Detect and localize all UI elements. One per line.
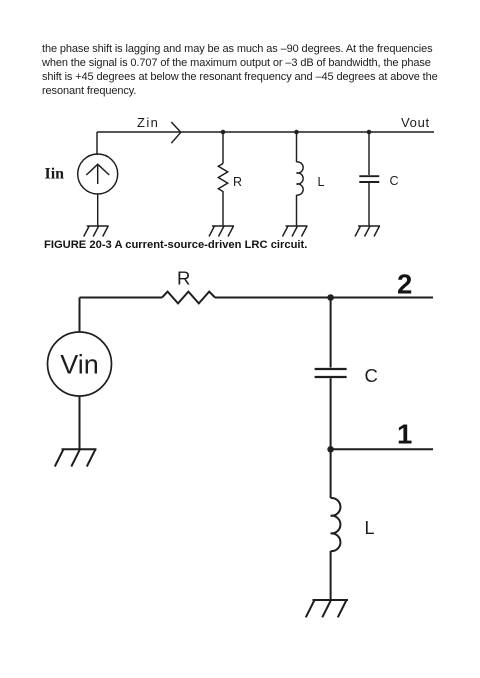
svg-text:2: 2 [397,269,412,300]
ground below C [355,226,380,237]
wire node 1 to inductor [330,449,332,498]
svg-text:Vin: Vin [60,350,99,380]
wire Vin to ground [79,396,81,449]
figure caption [44,239,307,251]
resistor R circuit 2 [162,292,215,304]
wire top circuit 2 left segment [80,297,163,299]
wire resistor to ground [222,194,224,227]
paragraph text [42,43,472,99]
svg-text:L: L [318,175,325,189]
wire node 2 to capacitor [330,298,332,368]
node dot 1 [327,446,334,453]
current source Iin [78,154,118,194]
wire inductor to ground [330,551,332,600]
wire bus to inductor L [296,132,298,162]
svg-text:Zin: Zin [137,115,159,130]
wire bus to resistor R [222,132,224,164]
svg-text:R: R [233,175,242,189]
wire top bus circuit 1 [97,131,434,133]
svg-text:C: C [390,174,399,188]
inductor L circuit 2 [331,498,341,551]
svg-text:R: R [177,268,190,289]
wire current source to ground [97,194,99,226]
resistor R [218,164,227,194]
node dot at C [367,130,372,135]
ground below R [209,226,234,237]
wire current source to bus [96,132,98,155]
wire top circuit 2 right segment to terminal 2 [215,297,433,299]
capacitor C [359,176,379,182]
wire down to Vin source [79,298,81,333]
ground below Vin [55,449,97,466]
wire inductor to ground [296,195,298,226]
wire capacitor to node 1 [330,378,332,449]
voltage source Vin [48,332,112,396]
ground below L [283,226,308,237]
inductor L [297,162,304,195]
node dot 2 [327,294,334,301]
wire node 1 to terminal 1 [331,448,433,450]
capacitor C circuit 2 [315,369,347,377]
svg-text:Iin: Iin [45,166,65,183]
wire bus to capacitor C [368,132,370,175]
ground below Iin [84,226,109,237]
Zin arrow [171,122,181,143]
ground below L circuit 2 [306,600,348,617]
svg-text:Vout: Vout [401,115,430,130]
wire capacitor to ground [368,183,370,226]
svg-text:C: C [365,365,378,386]
svg-text:1: 1 [397,419,412,450]
node dot at L [294,130,299,135]
node dot at R [221,130,226,135]
svg-text:L: L [365,518,375,538]
